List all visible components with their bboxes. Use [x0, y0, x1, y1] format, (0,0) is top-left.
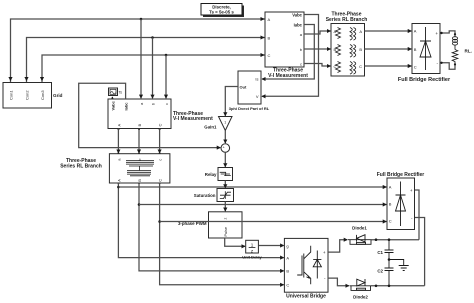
wire branch1 to FBR2 A — [118, 186, 386, 188]
diode icon FBR1 — [420, 27, 431, 70]
block Unit Delay — [242, 240, 262, 259]
resistor inductor icons RL1 — [336, 28, 356, 75]
svg-text:Is: Is — [255, 77, 258, 82]
node dot branch3 — [158, 220, 161, 223]
svg-text:B: B — [137, 124, 142, 127]
svg-text:c: c — [300, 61, 302, 66]
wire FBR1 minus to RL load — [440, 63, 455, 70]
wire drop to VI2 b — [152, 38, 154, 99]
block Universal Bridge — [284, 238, 328, 299]
block VI1 Three-Phase V-I Measurement — [265, 12, 308, 79]
wire phase2 Grid to VI1 B — [27, 38, 266, 83]
wire Diode2 out DC minus bus — [371, 285, 425, 287]
wire FBR2 plus down to bus — [415, 190, 420, 240]
svg-text:V: V — [256, 94, 259, 99]
wire FBR1 plus to RL load — [440, 31, 455, 36]
node port nubs VI2 RL2 — [118, 128, 161, 184]
product block circle — [221, 144, 230, 153]
svg-text:+: + — [435, 31, 438, 36]
svg-text:Iabc: Iabc — [124, 102, 129, 111]
svg-text:c: c — [164, 103, 169, 105]
arrow into Grid port2 — [26, 77, 28, 81]
node dot bus plus 1 — [375, 238, 378, 241]
svg-text:+: + — [323, 250, 326, 255]
svg-text:Con3: Con3 — [40, 90, 45, 100]
block 3-phase PWM — [178, 212, 242, 238]
svg-text:A: A — [414, 28, 417, 33]
wire Diode1 out DC plus bus — [372, 239, 420, 241]
svg-text:Ts: Ts — [119, 91, 123, 95]
wire RL2 c down to UB C with branch — [160, 183, 284, 285]
wire RL2 b down to UB B with branch — [139, 183, 284, 271]
block FBR1 Full Bridge Rectifier — [398, 24, 451, 84]
svg-text:C: C — [389, 219, 392, 224]
powergui block Discrete — [201, 4, 244, 18]
node junction b on phase2 — [151, 36, 154, 39]
svg-text:Gain1: Gain1 — [204, 125, 217, 130]
block Relay — [205, 168, 233, 181]
wire Gain1 to product — [224, 131, 226, 144]
svg-text:1: 1 — [251, 243, 254, 248]
svg-text:Universal Bridge: Universal Bridge — [286, 294, 326, 300]
svg-text:Series RL Branch: Series RL Branch — [60, 164, 102, 170]
arrow into VI1 B — [262, 37, 264, 39]
svg-text:C: C — [414, 64, 417, 69]
svg-text:Diode1: Diode1 — [352, 226, 367, 231]
inductor RL load — [453, 36, 458, 50]
wire FBR2 minus down to bus — [415, 218, 425, 286]
wire phase3 Grid to VI1 C — [42, 55, 265, 83]
wire product to Relay — [224, 152, 226, 167]
svg-text:Full Bridge Rectifier: Full Bridge Rectifier — [398, 77, 451, 83]
wire VI2 A down to RL2 a — [117, 129, 119, 154]
block Diode2 — [350, 279, 371, 300]
diode icon inside UB — [313, 251, 321, 279]
IGBT icon inside UB — [297, 246, 311, 284]
svg-text:B: B — [286, 269, 289, 274]
arrow into VI1 C — [262, 54, 264, 56]
svg-text:Vabc: Vabc — [292, 12, 302, 17]
wire Iabc to 3phi Is input — [262, 25, 314, 80]
svg-text:C: C — [286, 283, 289, 288]
wire phase1 Grid to VI1 A — [11, 19, 266, 83]
block Diode1 — [348, 235, 372, 245]
wire VI1 c to RL1 C — [304, 64, 330, 67]
svg-text:3-phase PWM: 3-phase PWM — [178, 221, 207, 226]
svg-text:Series RL Branch: Series RL Branch — [326, 17, 368, 23]
wire RL1 B to FBR1 B — [365, 48, 412, 50]
svg-text:A: A — [116, 179, 121, 182]
capacitor C2 — [385, 260, 394, 286]
wire RL1 C to FBR1 C — [365, 65, 412, 67]
svg-text:A: A — [389, 184, 392, 189]
resistor RL load — [452, 50, 458, 65]
block FBR2 Full Bridge Rectifier — [377, 172, 425, 230]
svg-text:Full Bridge Rectifier: Full Bridge Rectifier — [377, 172, 425, 178]
svg-text:c: c — [158, 159, 163, 161]
svg-text:Ts = 5e-05 s: Ts = 5e-05 s — [209, 10, 234, 15]
svg-text:1: 1 — [224, 121, 226, 125]
svg-text:+: + — [410, 188, 413, 193]
wire branch3 to FBR2 C — [160, 221, 387, 223]
wire drop to VI2 a — [140, 19, 142, 98]
wire UB minus to Diode2 — [328, 278, 349, 286]
svg-text:Iabc: Iabc — [294, 22, 303, 27]
node junction a on phase1 — [140, 18, 143, 21]
wire branch3 segment over PWM block — [208, 221, 243, 223]
svg-text:C: C — [359, 64, 362, 69]
node dot branch2 — [138, 203, 141, 206]
diode icon FBR2 — [396, 182, 406, 227]
wire VI1 a to RL1 A — [304, 31, 330, 34]
svg-text:C1: C1 — [377, 250, 383, 255]
node dot bus plus 2 — [388, 238, 391, 241]
wire VI1 b to RL1 B — [304, 48, 330, 50]
svg-text:B: B — [414, 47, 417, 52]
block RL2 Three-Phase Series RL Branch rotated — [60, 154, 170, 183]
node dot RL load top — [454, 33, 456, 35]
svg-text:B: B — [389, 202, 392, 207]
svg-text:V-I Measurement: V-I Measurement — [268, 73, 308, 79]
scope block — [109, 88, 123, 96]
svg-text:Grid: Grid — [53, 93, 63, 98]
node dot bus minus 1 — [375, 285, 378, 288]
svg-text:B: B — [359, 47, 362, 52]
arrow into Grid port1 — [10, 77, 12, 81]
wire branch2 to FBR2 B — [139, 204, 386, 206]
svg-text:C: C — [158, 124, 163, 127]
svg-text:B: B — [268, 35, 271, 40]
svg-text:g: g — [286, 243, 288, 248]
svg-text:Saturation: Saturation — [194, 193, 216, 198]
svg-text:Relay: Relay — [205, 172, 217, 177]
wire drop to VI2 c — [165, 55, 167, 98]
svg-text:C: C — [268, 53, 271, 58]
wire PWM to Unit Delay — [225, 238, 245, 246]
svg-text:Vabc: Vabc — [110, 100, 115, 110]
node dot mid caps — [388, 258, 391, 261]
wire UB plus to Diode1 — [328, 240, 347, 252]
wire Saturation to PWM — [224, 202, 226, 212]
svg-text:A: A — [359, 29, 362, 34]
wire 3phi Out to Gain1 — [225, 87, 238, 116]
wire Vabc to scope — [111, 97, 113, 99]
svg-text:z: z — [224, 218, 228, 220]
svg-text:Out: Out — [240, 84, 248, 89]
gain Gain1 — [204, 117, 232, 131]
svg-text:A: A — [268, 17, 271, 22]
block VI2 Three-Phase V-I Measurement rotated — [108, 99, 213, 129]
wire RL1 A to FBR1 A — [365, 30, 412, 32]
arrow into Grid port3 — [41, 77, 43, 81]
node dot RL load bottom — [454, 63, 456, 65]
node dot FBR1 minus — [440, 62, 442, 64]
wire RL2 a down to UB A with branch — [118, 183, 283, 258]
svg-text:RL.: RL. — [465, 49, 472, 54]
svg-text:A: A — [116, 124, 121, 127]
svg-text:3phi Dvect Part of RL: 3phi Dvect Part of RL — [229, 106, 270, 111]
wire VI2 C down to RL2 c — [159, 129, 161, 154]
svg-text:C: C — [158, 179, 163, 182]
svg-text:Con2: Con2 — [24, 90, 29, 100]
wire Unit Delay to UB g — [258, 245, 283, 247]
svg-text:Unit Delay: Unit Delay — [242, 254, 262, 259]
capacitor C1 — [385, 240, 394, 260]
node dot FBR1 plus — [440, 32, 442, 34]
svg-text:B: B — [137, 179, 142, 182]
block 3phi Dvect Part of RL — [229, 71, 270, 111]
svg-text:Pulse: Pulse — [224, 227, 228, 237]
node junction c on phase3 — [165, 54, 168, 57]
node dot bus minus 2 — [388, 285, 391, 288]
arrow into VI1 A — [262, 18, 264, 20]
block RL1 Three-Phase Series RL Branch — [326, 12, 368, 77]
wire Iabc feedback loop to product — [79, 83, 221, 147]
svg-text:Diode2: Diode2 — [353, 295, 368, 300]
svg-text:V-I Measurement: V-I Measurement — [173, 116, 213, 122]
svg-text:A: A — [286, 255, 289, 260]
ground — [389, 260, 409, 271]
subsystem Grid — [3, 83, 63, 109]
wire Vabc to 3phi V input — [262, 15, 319, 97]
resistor inductor icons RL2 — [126, 161, 154, 176]
node dot branch1 — [117, 186, 120, 189]
wire Relay to Saturation — [224, 181, 226, 188]
svg-text:C2: C2 — [377, 269, 383, 274]
wire VI2 B down to RL2 b — [138, 129, 140, 154]
block Saturation — [194, 189, 234, 202]
svg-text:Con1: Con1 — [8, 90, 13, 100]
